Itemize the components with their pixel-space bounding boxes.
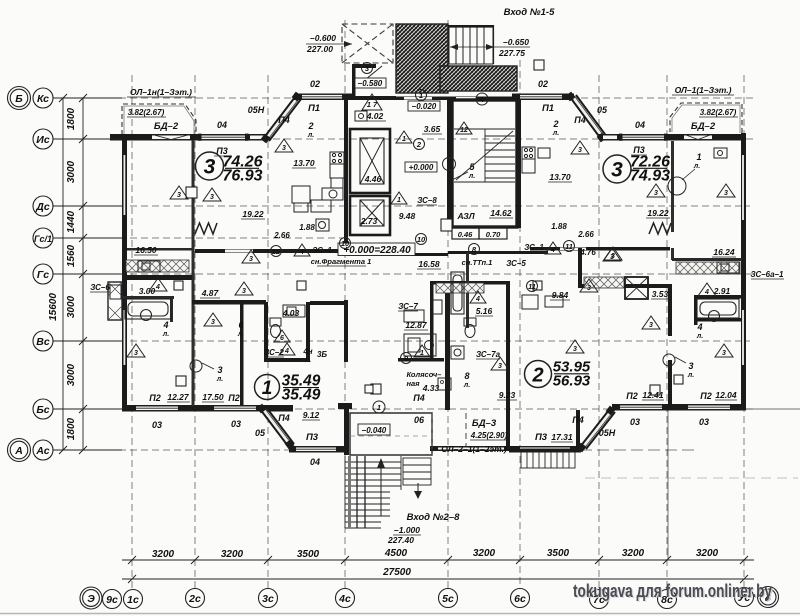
svg-text:Вход №1-5: Вход №1-5: [504, 7, 555, 18]
svg-text:–0.020: –0.020: [412, 102, 437, 111]
svg-text:л.: л.: [162, 331, 169, 338]
triangle 4 apt2: [470, 291, 486, 303]
axis bubble Ас: [33, 440, 53, 460]
axis 8с solid below building: [667, 410, 669, 560]
svg-text:3: 3: [611, 159, 623, 182]
axis 5с vertical: [447, 20, 449, 588]
axis bubble 7с: [590, 590, 609, 609]
axis bubble Кс: [33, 88, 53, 108]
axis Ис horizontal: [53, 138, 757, 140]
svg-text:35.49: 35.49: [282, 387, 321, 404]
bay window П4 left top diagonal: [263, 97, 301, 141]
axis Гс/1 horizontal: [53, 237, 345, 239]
svg-text:–0.040: –0.040: [362, 426, 387, 435]
svg-text:3: 3: [573, 346, 577, 353]
svg-text:П1: П1: [542, 103, 554, 114]
svg-text:3с: 3с: [262, 593, 274, 605]
svg-text:3500: 3500: [297, 549, 320, 560]
svg-text:27500: 27500: [382, 567, 411, 578]
corridor wall left y250: [127, 248, 192, 251]
svg-text:3: 3: [688, 361, 693, 371]
svg-text:ЗС–2: ЗС–2: [264, 348, 284, 357]
svg-text:12.27: 12.27: [167, 392, 190, 402]
svg-text:БД–2: БД–2: [691, 121, 716, 132]
svg-text:Дс: Дс: [35, 201, 50, 213]
svg-text:л.: л.: [693, 163, 700, 170]
apartment1 room divider vertical: [240, 302, 244, 406]
svg-text:3: 3: [204, 156, 216, 179]
corridor vertical wall x448: [447, 100, 451, 228]
shaft X-box right: [625, 277, 648, 299]
svg-text:П3: П3: [535, 432, 548, 443]
svg-text:3Б: 3Б: [317, 350, 327, 359]
bottom wall left: [122, 405, 293, 412]
svg-text:2: 2: [531, 365, 543, 387]
svg-text:06: 06: [414, 415, 425, 425]
triangle 6 apt1: [274, 330, 290, 342]
svg-text:04: 04: [310, 457, 320, 467]
svg-text:3: 3: [249, 256, 253, 263]
svg-text:Б: Б: [15, 93, 23, 105]
svg-text:1: 1: [402, 136, 406, 143]
svg-text:76.93: 76.93: [222, 168, 262, 185]
svg-text:–0.600: –0.600: [310, 33, 336, 43]
triangle 4 apt3 bath: [698, 283, 716, 296]
svg-text:1 7: 1 7: [367, 100, 378, 109]
left dim line total 15600: [62, 98, 64, 450]
svg-text:3200: 3200: [152, 549, 175, 560]
svg-text:2: 2: [416, 140, 422, 149]
triangles 3 apt1: [204, 313, 222, 326]
svg-text:сн.Фрагмента 1: сн.Фрагмента 1: [311, 257, 372, 266]
svg-text:3000: 3000: [66, 295, 77, 318]
svg-text:4500: 4500: [384, 548, 408, 559]
axis bubble 1с: [124, 590, 143, 609]
svg-text:227.40: 227.40: [387, 535, 414, 545]
svg-text:П2: П2: [228, 393, 239, 403]
apartment3 wall horizontal y285: [582, 284, 672, 288]
axis bubble Дс: [33, 196, 53, 216]
bottom wall П3-17.31 segment: [509, 446, 581, 453]
window 05 right top: [603, 135, 617, 140]
triangles 3 apt2: [566, 340, 584, 353]
svg-text:9с: 9с: [106, 594, 118, 606]
axis 6с vertical: [519, 60, 521, 588]
axis 3с vertical: [267, 75, 269, 588]
svg-text:3500: 3500: [547, 548, 570, 559]
axis 1с vertical: [131, 75, 133, 588]
svg-text:74.93: 74.93: [630, 168, 670, 185]
wall junction squares: [174, 60, 683, 395]
axis bubble Бс: [33, 399, 53, 419]
bubble 10 left: [340, 238, 351, 249]
corridor walls below stairwell: [448, 251, 548, 254]
svg-text:4с: 4с: [338, 593, 351, 605]
svg-text:Бс: Бс: [36, 404, 49, 416]
svg-text:П4: П4: [572, 415, 583, 425]
svg-text:12.87: 12.87: [405, 320, 428, 330]
interior wall vertical left apartment divider: [192, 140, 195, 300]
svg-text:16.24: 16.24: [713, 247, 735, 257]
bubble 8: [469, 244, 480, 255]
svg-text:л.: л.: [552, 130, 559, 137]
svg-text:П2: П2: [149, 393, 160, 403]
window 02 right: [520, 94, 562, 99]
apartment2/3 divider x578: [578, 248, 582, 288]
cabinet right lobby 4.02: [714, 148, 727, 158]
svg-text:3.53: 3.53: [652, 289, 669, 299]
svg-text:13.70: 13.70: [549, 172, 571, 182]
washbasin box left wall: [110, 285, 121, 299]
svg-text:1: 1: [262, 378, 273, 399]
svg-text:05Н: 05Н: [248, 105, 265, 115]
wall left of entrance2 landing: [344, 408, 349, 455]
svg-text:л.: л.: [696, 333, 703, 340]
svg-text:П2: П2: [700, 391, 711, 401]
svg-text:3000: 3000: [66, 363, 77, 386]
window БД-2 V right: [684, 135, 712, 140]
outer wall right: [741, 133, 746, 410]
corridor wall below elevators: [345, 253, 448, 256]
svg-text:4: 4: [155, 284, 160, 291]
corridor top wall below hatch right: [448, 97, 512, 101]
svg-text:4.25(2.90): 4.25(2.90): [470, 431, 508, 440]
window БД-2 V left: [152, 135, 190, 140]
left axis stub lines: [53, 97, 122, 99]
entrance2 right small flight: [403, 458, 431, 485]
triangle 12 stairwell: [456, 122, 472, 134]
balcony БД-2 right outline: [670, 103, 742, 133]
entry porch hatch block 1: [396, 24, 448, 93]
svg-text:02: 02: [538, 79, 548, 89]
svg-text:04: 04: [635, 120, 645, 130]
window band ЗС-6а right: [676, 262, 740, 274]
left bath walls (3.00 room): [122, 296, 174, 299]
svg-text:–0.580: –0.580: [358, 79, 383, 88]
svg-text:4.03: 4.03: [282, 308, 300, 318]
glazed partition right corridor: [584, 277, 624, 288]
apartment 3 right number circle: [603, 155, 631, 183]
svg-text:8: 8: [464, 371, 469, 381]
triangle 4 left corridor: [294, 244, 310, 256]
svg-text:9.23: 9.23: [499, 390, 516, 400]
svg-text:1560: 1560: [66, 244, 77, 267]
top wall mid-right (Кс): [512, 94, 574, 101]
svg-text:3200: 3200: [622, 548, 645, 559]
door circle АЗЛ: [443, 158, 456, 171]
window 03 right-1: [620, 405, 662, 410]
svg-text:ОЛ–2–1(1–2эт.): ОЛ–2–1(1–2эт.): [441, 444, 507, 454]
svg-text:05Н: 05Н: [599, 428, 616, 438]
svg-text:3: 3: [578, 147, 582, 154]
triangles 3 apt3: [571, 141, 589, 154]
svg-text:2: 2: [552, 119, 558, 129]
label +0.000 boxed: [405, 162, 437, 172]
svg-text:3: 3: [211, 319, 215, 326]
apartment 2 number circle: [525, 361, 552, 388]
svg-text:9.48: 9.48: [399, 211, 416, 221]
svg-text:12.41: 12.41: [642, 390, 664, 400]
elevator shaft 1: [350, 129, 390, 193]
svg-text:Гс: Гс: [37, 269, 49, 281]
window 03 right-2: [688, 405, 730, 410]
svg-text:0.70: 0.70: [486, 230, 501, 239]
left dim line segments: [82, 98, 84, 450]
label -0.020 boxed: [408, 101, 440, 111]
lobby door swing: [360, 66, 382, 84]
apartment1 bath walls: [264, 302, 268, 362]
apartment2 kitchen wall x517: [517, 100, 521, 228]
svg-text:1800: 1800: [66, 417, 77, 440]
svg-text:2: 2: [307, 121, 313, 131]
svg-text:П4: П4: [278, 413, 289, 423]
window 02 left: [302, 94, 342, 99]
axis bubble Гс/1: [33, 228, 53, 248]
axis bubble Ис: [33, 129, 53, 149]
svg-text:сн.ТТп.1: сн.ТТп.1: [462, 258, 493, 267]
svg-text:3200: 3200: [473, 548, 496, 559]
svg-text:13.70: 13.70: [293, 158, 315, 168]
axis bubble 4 right edge: [758, 587, 779, 608]
apartment 3 left number circle: [196, 152, 224, 180]
svg-text:3: 3: [242, 288, 246, 295]
svg-text:4.46: 4.46: [364, 174, 382, 184]
svg-text:1: 1: [420, 350, 424, 357]
svg-text:03: 03: [231, 419, 241, 429]
apartment1 room divider horizontal: [192, 300, 266, 305]
svg-text:Кс: Кс: [37, 93, 49, 105]
bay window П4 bottom-right diagonal: [580, 410, 615, 449]
svg-text:+0.000: +0.000: [409, 163, 434, 172]
axis bubble Ус: [735, 588, 754, 607]
svg-text:4.33: 4.33: [422, 383, 440, 393]
axis 4с vertical: [344, 20, 346, 588]
svg-text:4: 4: [299, 249, 304, 256]
svg-text:Ас: Ас: [35, 445, 49, 457]
bottom dim line total 27500: [122, 578, 754, 580]
stairwell АЗЛ walls: [452, 100, 517, 227]
axis 7с vertical: [598, 75, 600, 588]
entry stair top rail: [448, 25, 494, 28]
entrance2 stair rails: [348, 456, 351, 528]
svg-text:02: 02: [310, 79, 320, 89]
axis Кс horizontal: [53, 97, 757, 99]
axis bubble 3с: [259, 589, 278, 608]
svg-text:3200: 3200: [221, 549, 244, 560]
svg-text:2с: 2с: [188, 593, 201, 605]
svg-text:л.: л.: [216, 376, 223, 383]
kitchen block left (stove/sink/counter): [292, 152, 344, 231]
bubble 3 lobby left: [362, 63, 373, 74]
svg-text:17.50: 17.50: [202, 392, 224, 402]
svg-text:Вс: Вс: [36, 336, 50, 348]
svg-text:16.58: 16.58: [418, 259, 440, 269]
washbasin apartment1 bath: [283, 305, 305, 317]
svg-text:4.87: 4.87: [201, 288, 220, 298]
window 04 left top: [200, 135, 246, 140]
bubble 9: [401, 353, 412, 364]
svg-text:П4: П4: [413, 393, 424, 403]
triangle 1 колясочная: [414, 345, 430, 357]
svg-text:П1: П1: [308, 103, 320, 114]
kitchen icons apt2 hall: [438, 378, 451, 390]
svg-text:+0.000=228.40: +0.000=228.40: [343, 245, 411, 256]
bubble 2: [414, 139, 425, 150]
label +0.000=228.40: [338, 243, 415, 256]
svg-text:3: 3: [282, 145, 286, 152]
radiator zigzag П3 right: [649, 223, 671, 234]
svg-text:4: 4: [475, 296, 480, 303]
apartment2 wall vertical x506: [506, 283, 510, 449]
kitchen block right apartment2: [522, 147, 563, 309]
bubble 4 center top: [476, 93, 488, 105]
axis 8с vertical: [666, 75, 668, 588]
corridor vertical wall x345 lower: [344, 300, 348, 362]
label -0.040 boxed: [358, 424, 390, 435]
svg-text:5с: 5с: [442, 593, 454, 605]
entrance2 stair up arrow: [380, 462, 382, 516]
svg-text:227.75: 227.75: [498, 48, 525, 58]
triangle 4 right corridor: [545, 242, 561, 254]
svg-text:56.93: 56.93: [553, 373, 591, 390]
triangle 4 bath left: [149, 278, 167, 291]
svg-text:3: 3: [210, 194, 214, 201]
svg-text:Ис: Ис: [36, 134, 50, 146]
axis bubble 5с: [439, 589, 458, 608]
apartment3 divider vertical x668: [668, 288, 672, 336]
guide dashed line lower right: [585, 477, 798, 479]
radiator zigzag П3 left: [195, 223, 217, 234]
svg-text:12: 12: [460, 127, 468, 134]
svg-text:11: 11: [565, 242, 573, 251]
svg-text:4.76: 4.76: [579, 248, 596, 257]
svg-text:–1.000: –1.000: [394, 525, 420, 535]
svg-text:227.00: 227.00: [306, 44, 333, 54]
svg-text:2.66: 2.66: [273, 231, 290, 240]
axis Вс horizontal: [53, 340, 750, 342]
axis bubble Гс: [33, 264, 53, 284]
triangle 3 apt3 window: [604, 247, 622, 260]
svg-text:ЗС–7а: ЗС–7а: [476, 350, 501, 359]
svg-text:ная: ная: [406, 379, 420, 388]
svg-text:4н: 4н: [302, 347, 312, 356]
bathtub left (3.00 room): [125, 299, 171, 321]
svg-text:3: 3: [654, 190, 658, 197]
svg-text:4: 4: [162, 320, 168, 330]
triangle 1 center: [396, 131, 412, 143]
svg-text:5.16: 5.16: [476, 306, 493, 316]
bubble 12 left corridor: [271, 246, 282, 257]
bubble 10 right: [416, 234, 427, 245]
entrance2 stair flight left: [345, 456, 401, 528]
right bath walls: [694, 295, 742, 299]
bathtub right (2.91 room): [697, 299, 739, 322]
svg-text:6с: 6с: [514, 593, 526, 605]
svg-text:ЗС–7: ЗС–7: [398, 302, 418, 311]
photo bottom edge line: [0, 613, 800, 615]
apartment 1 number circle: [255, 375, 280, 400]
svg-text:–0.650: –0.650: [503, 37, 529, 47]
svg-text:П2: П2: [626, 391, 637, 401]
outer wall left: [122, 135, 127, 411]
door circle apt3 low + label 3 л: [663, 354, 675, 366]
svg-text:15600: 15600: [48, 293, 59, 321]
bath block ЗС-7 fixtures: [404, 300, 442, 356]
svg-text:9.84: 9.84: [552, 290, 569, 300]
axis bubble 2с: [186, 589, 205, 608]
svg-text:1с: 1с: [127, 594, 139, 606]
svg-text:19.22: 19.22: [647, 208, 669, 218]
svg-text:ЗС–6: ЗС–6: [90, 283, 110, 292]
svg-text:3: 3: [134, 350, 138, 357]
axis bubble 4с: [336, 589, 355, 608]
lobby -0.580 walls: [352, 64, 356, 100]
wall П3 room bottom corridor: [195, 249, 345, 253]
bubble 11 x2: [527, 281, 538, 292]
svg-text:12: 12: [272, 247, 281, 256]
svg-text:4.02: 4.02: [366, 111, 384, 121]
svg-text:П4: П4: [278, 115, 289, 125]
sink 16.24 right: [717, 262, 739, 273]
axis bubble 6с: [511, 589, 530, 608]
svg-text:л.: л.: [463, 382, 470, 389]
axis Ус vertical: [743, 75, 745, 588]
bottom wall БД-3 segment: [430, 446, 522, 451]
svg-text:3.82(2.67): 3.82(2.67): [128, 108, 165, 117]
svg-text:4: 4: [704, 289, 709, 296]
svg-text:05: 05: [255, 428, 266, 438]
triangle 3 kitchen left: [275, 139, 293, 152]
svg-text:ОЛ–1(1–Зэт.): ОЛ–1(1–Зэт.): [675, 85, 732, 95]
svg-text:12.04: 12.04: [715, 390, 737, 400]
svg-text:4: 4: [479, 95, 485, 104]
svg-text:3: 3: [722, 350, 726, 357]
svg-text:9.12: 9.12: [303, 410, 320, 420]
triangle 1 low: [391, 192, 407, 204]
svg-text:3.82(2.67): 3.82(2.67): [700, 108, 737, 117]
svg-text:л.: л.: [237, 331, 244, 338]
wall above right window band: [672, 258, 742, 261]
wall segment y302 right of bath: [310, 301, 344, 305]
bottom wall 04 segment (П3 room): [289, 446, 344, 453]
svg-text:19.22: 19.22: [242, 209, 264, 219]
svg-text:П4: П4: [574, 115, 585, 125]
ОЛ-2-1 stair treads: [521, 449, 575, 468]
svg-text:4: 4: [696, 322, 702, 332]
glazed partition left of bath block: [436, 283, 484, 293]
svg-text:ЗС–8: ЗС–8: [417, 196, 437, 205]
ОЛ-2-1 top thick rail: [509, 449, 581, 452]
svg-text:ЗС–5: ЗС–5: [506, 259, 526, 268]
svg-text:БД–2: БД–2: [154, 121, 179, 132]
bay window П4 right top diagonal: [570, 95, 607, 139]
triangle 3 left low: [127, 344, 145, 357]
svg-text:П3: П3: [306, 432, 319, 443]
svg-text:3: 3: [217, 365, 222, 375]
bottom wall right: [612, 404, 746, 411]
svg-text:3: 3: [498, 363, 502, 370]
axis Бс horizontal: [53, 408, 757, 410]
stairwell bottom cells 0.46 0.70: [452, 227, 479, 239]
triangle 3 (x2) in П3 room: [170, 186, 188, 199]
window 03 left-1: [136, 406, 178, 411]
svg-text:ЗС–6а–1: ЗС–6а–1: [751, 270, 785, 279]
svg-text:1.88: 1.88: [551, 222, 567, 231]
axis bubble Вс: [33, 331, 53, 351]
svg-text:Гс/1: Гс/1: [34, 234, 52, 244]
svg-text:Э: Э: [87, 593, 95, 605]
axis bubble 8с: [658, 590, 677, 609]
